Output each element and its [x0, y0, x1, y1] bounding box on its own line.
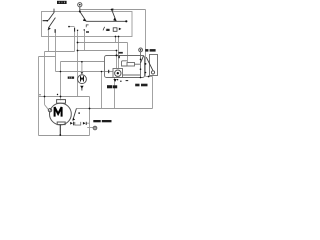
resistor R1 — [127, 63, 135, 67]
inner dot terminal circle top — [79, 4, 81, 6]
junction dot pump stem — [81, 61, 83, 63]
tiny equals mark upper — [106, 28, 108, 31]
wire L2 y50.5 — [78, 50, 117, 52]
terminal circle top — [78, 3, 82, 7]
tiny arrow right of box — [119, 28, 122, 31]
blade 1 stub above box — [53, 9, 55, 13]
wire x48.5 from box — [48, 30, 50, 52]
junction dot x101.5 — [101, 71, 103, 73]
timer block outline — [105, 56, 145, 78]
terminal dot y26.5 wire — [68, 26, 70, 28]
label BU on L2 blob — [118, 52, 122, 54]
wire x74.5 from box — [74, 28, 76, 52]
timer bottom arrow dot — [117, 79, 118, 80]
junction dot timer right y77.5 — [140, 77, 142, 79]
label TM below box blob — [86, 31, 89, 33]
junction dot right wire y72.5 — [145, 72, 147, 74]
blade 1 terminal bar — [43, 20, 48, 21]
motor left terminal circle — [48, 109, 51, 112]
tiny mark x120.5 — [120, 81, 121, 82]
label WIPER MOTOR blob — [93, 120, 111, 122]
wire x89.5 down — [89, 97, 91, 136]
inner dot timer top terminal — [140, 49, 142, 51]
pump top arrow tick — [81, 72, 84, 74]
label BK (BK) bottom right blob — [135, 84, 147, 87]
wire jog y51.5 — [45, 51, 75, 53]
pump motor P1 circle — [78, 75, 87, 84]
wire B x55.5 — [55, 29, 57, 71]
wire A feed y56.5 — [39, 56, 56, 58]
motor top brush box — [57, 100, 66, 104]
tiny angle mark — [86, 25, 88, 27]
inner dot timer motor — [117, 72, 119, 74]
tiny box below blade 4 — [113, 28, 117, 32]
wire L2 drop to timer motor — [116, 51, 118, 69]
switch box S1 outline — [42, 12, 133, 37]
contact bar left — [72, 122, 75, 126]
timer right wire x140.5 — [140, 52, 142, 78]
wire x44.5 down to motor — [44, 52, 46, 105]
resistor to right wire link — [135, 63, 141, 65]
junction dot motor stem on bottom bus — [59, 134, 61, 136]
junction dot box bottom x118.5 — [118, 36, 120, 38]
junction dot L1 x77.5 — [77, 42, 79, 44]
junction dot L2 x77.5 — [77, 50, 79, 52]
main motor M1 circle — [50, 103, 72, 125]
tiny bar x126 — [126, 80, 129, 81]
timer motor box — [113, 69, 123, 78]
terminal dot end of y21.3 wire — [125, 20, 127, 22]
wire motor terminal circle tap — [87, 127, 93, 129]
wire C x60.5 down — [60, 62, 62, 101]
junction dot timer right y69.2 — [140, 68, 142, 70]
switch blade 2 — [49, 18, 56, 28]
junction dot right bottom link — [148, 76, 150, 78]
wire A x38.5 — [38, 57, 40, 136]
wire x118.5 box to timer motor — [118, 37, 120, 69]
wire contact segment to x89.5 — [87, 122, 90, 124]
wire pump bus y96.5 — [39, 96, 90, 98]
terminal dot x84.5 — [84, 29, 85, 30]
terminal circle stem — [79, 7, 81, 12]
label PUMP blob — [68, 77, 74, 79]
switch blade 4 — [112, 10, 117, 22]
switch blade 3 — [80, 12, 86, 22]
switch blade 1 — [48, 13, 54, 21]
floating square mark below bus — [78, 112, 80, 113]
wire pump stem upper — [81, 62, 83, 75]
letter M pump — [81, 77, 84, 82]
contact arrow right — [83, 122, 86, 125]
label BK (BK) lid switch blob — [145, 49, 155, 52]
wire C corner y61.5 — [61, 61, 105, 63]
timer block right blade — [141, 56, 144, 63]
wire B horizontal to timer — [56, 71, 114, 73]
timer block top terminal circle — [139, 48, 143, 52]
wire right drop x145.5 — [145, 10, 147, 77]
pump arrow stem — [81, 88, 83, 91]
junction dot timer block top — [116, 54, 118, 56]
tiny slash mark — [103, 27, 105, 31]
letter M main motor — [55, 107, 62, 117]
wire timer bottom x114.5 — [114, 78, 116, 109]
lid switch terminal circle — [151, 71, 154, 74]
terminal tick wire B — [54, 29, 57, 33]
wire x84.5 from box dot down — [84, 30, 86, 50]
wire right box bottom link y76.5 — [146, 76, 153, 78]
junction dot bus x60.5 — [60, 96, 62, 98]
motor area blade — [73, 109, 76, 120]
wire motor diagonal lead — [45, 105, 49, 110]
speck near bus corner — [39, 94, 40, 95]
motor right terminal circle — [93, 126, 97, 130]
wire L1 drop to resistor — [127, 43, 129, 63]
timer left terminal tick — [108, 70, 109, 73]
tiny equals mark lower — [106, 29, 108, 32]
timer bottom arrow — [113, 79, 116, 82]
timer motor circle — [115, 70, 121, 76]
junction dot timer right y59.3 — [140, 59, 142, 61]
inner box bottom line y75 — [123, 74, 141, 76]
inner hook left of resistor — [122, 61, 128, 66]
wire bottom bus y135.5 — [39, 135, 90, 137]
label TIMER blob — [107, 85, 117, 88]
wire L1 stub to box dot — [115, 37, 117, 43]
wire y21.3 from blade 3 — [86, 20, 126, 22]
label B below L2 blob — [118, 56, 120, 58]
wire right drop x152.5 — [152, 77, 154, 109]
junction dot lower bus x89.5 — [89, 108, 91, 110]
junction dot box bottom x115.5 — [115, 36, 117, 38]
junction dot bus x44.5 — [44, 96, 46, 98]
junction dot pivot blade 3 — [79, 11, 81, 13]
motor blade arrowhead — [72, 118, 75, 121]
speck left of wire C — [57, 94, 58, 95]
inner dot motor right terminal — [94, 127, 95, 128]
junction dot L2 corner — [116, 50, 118, 52]
lid switch blade — [146, 57, 153, 70]
contact arrow left — [70, 122, 73, 125]
contact bar right — [85, 122, 88, 125]
wire contact hook — [75, 122, 81, 125]
wire inner y26.5 — [69, 26, 75, 28]
wire x101.5 down — [101, 72, 103, 109]
terminal dot x77.5 — [77, 30, 78, 31]
label SWITCH black bar — [57, 1, 67, 4]
lid switch box outline — [150, 55, 158, 76]
terminal tick x74.5 — [73, 28, 76, 32]
junction dot wire C crossing — [60, 71, 62, 73]
junction tick on y9.5 wire — [111, 8, 114, 10]
blade 2 arrowhead — [48, 27, 51, 30]
wire L1 y42.5 — [78, 42, 128, 44]
motor bottom brush box — [57, 122, 65, 125]
motor bottom stem — [59, 125, 61, 136]
wire x77.5 long — [77, 30, 79, 96]
junction dot blade 4 pivot — [111, 9, 113, 11]
wire lower bus y108.5 — [76, 108, 152, 110]
label L1 blob — [107, 29, 110, 31]
blade 4 arrowhead — [113, 18, 116, 21]
junction dot right wire y63.9 — [145, 63, 147, 65]
pump bottom arrow — [80, 86, 83, 89]
wire top feed y9.5 — [80, 9, 146, 11]
blade 3 arrowhead — [83, 19, 87, 22]
